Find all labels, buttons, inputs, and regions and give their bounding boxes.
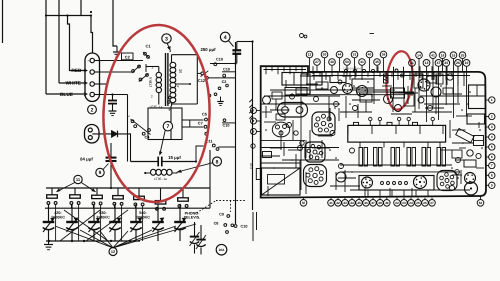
svg-text:250 μμf: 250 μμf <box>200 47 216 52</box>
svg-text:29: 29 <box>461 53 465 57</box>
svg-text:43: 43 <box>444 61 448 65</box>
svg-text:LF35 -1a: LF35 -1a <box>150 105 163 109</box>
svg-text:4: 4 <box>491 135 493 139</box>
svg-text:C10: C10 <box>216 58 223 62</box>
svg-text:24: 24 <box>409 201 413 205</box>
svg-text:7: 7 <box>491 164 493 168</box>
svg-text:48: 48 <box>330 60 334 64</box>
svg-text:49: 49 <box>385 201 389 205</box>
svg-text:31: 31 <box>353 53 357 57</box>
svg-text:LT35 .1a: LT35 .1a <box>154 177 167 181</box>
svg-text:35: 35 <box>375 60 379 64</box>
svg-text:42: 42 <box>336 201 340 205</box>
svg-text:25: 25 <box>416 201 420 205</box>
svg-text:C8: C8 <box>214 221 219 225</box>
svg-text:15 μμf: 15 μμf <box>168 155 181 160</box>
svg-text:8: 8 <box>491 173 493 177</box>
svg-text:44: 44 <box>350 201 354 205</box>
svg-text:C10: C10 <box>223 67 230 71</box>
svg-text:41: 41 <box>431 53 435 57</box>
svg-text:30: 30 <box>323 53 327 57</box>
svg-text:4: 4 <box>177 85 179 89</box>
svg-text:TELEVIS.: TELEVIS. <box>184 216 200 220</box>
svg-text:2: 2 <box>151 95 153 99</box>
svg-text:9: 9 <box>99 170 102 176</box>
svg-text:15: 15 <box>452 53 456 57</box>
svg-text:23: 23 <box>402 201 406 205</box>
svg-text:84 μμf: 84 μμf <box>80 156 93 161</box>
svg-text:9: 9 <box>491 183 493 187</box>
svg-text:4: 4 <box>224 35 227 41</box>
svg-text:C1: C1 <box>145 44 151 49</box>
svg-text:LT35.½: LT35.½ <box>148 76 152 87</box>
svg-text:48: 48 <box>378 201 382 205</box>
svg-text:6: 6 <box>491 155 493 159</box>
svg-text:46: 46 <box>364 201 368 205</box>
svg-text:5: 5 <box>491 145 493 149</box>
svg-text:18: 18 <box>441 53 445 57</box>
svg-text:47: 47 <box>437 61 441 65</box>
svg-text:C5: C5 <box>202 111 208 116</box>
svg-text:C4: C4 <box>145 134 151 139</box>
svg-text:27: 27 <box>315 60 319 64</box>
svg-text:BLUE: BLUE <box>60 92 74 98</box>
svg-text:3: 3 <box>491 125 493 129</box>
svg-text:47: 47 <box>371 201 375 205</box>
svg-text:14: 14 <box>417 53 421 57</box>
svg-text:27: 27 <box>430 201 434 205</box>
svg-text:C2: C2 <box>125 54 131 59</box>
svg-text:3: 3 <box>165 36 168 42</box>
svg-text:26: 26 <box>456 61 460 65</box>
svg-text:1: 1 <box>491 98 493 102</box>
svg-text:2: 2 <box>491 115 493 119</box>
svg-text:44: 44 <box>338 53 342 57</box>
svg-text:C12: C12 <box>198 78 206 83</box>
svg-text:26: 26 <box>423 201 427 205</box>
svg-text:WHITE: WHITE <box>66 81 82 87</box>
svg-text:M: M <box>302 201 305 205</box>
svg-text:1: 1 <box>151 66 153 70</box>
svg-text:RED: RED <box>71 68 82 74</box>
svg-text:C7: C7 <box>198 120 203 125</box>
svg-text:7: 7 <box>166 124 169 130</box>
svg-text:52: 52 <box>479 201 483 205</box>
svg-text:C2: C2 <box>222 80 227 84</box>
svg-text:13: 13 <box>425 61 429 65</box>
svg-text:2: 2 <box>91 107 94 113</box>
svg-text:12: 12 <box>308 53 312 57</box>
svg-text:22: 22 <box>395 201 399 205</box>
svg-text:C10: C10 <box>223 123 230 127</box>
svg-text:43: 43 <box>343 201 347 205</box>
svg-text:C9: C9 <box>219 212 224 216</box>
svg-text:C10: C10 <box>241 225 248 229</box>
svg-text:10: 10 <box>465 61 469 65</box>
svg-text:11: 11 <box>410 61 414 65</box>
svg-text:10A: 10A <box>219 248 226 252</box>
svg-text:41: 41 <box>329 201 333 205</box>
svg-text:12: 12 <box>111 250 115 254</box>
svg-text:8: 8 <box>216 159 219 165</box>
svg-text:41: 41 <box>360 60 364 64</box>
svg-text:38: 38 <box>382 53 386 57</box>
svg-text:45: 45 <box>357 201 361 205</box>
svg-text:50: 50 <box>345 60 349 64</box>
svg-text:40: 40 <box>368 53 372 57</box>
